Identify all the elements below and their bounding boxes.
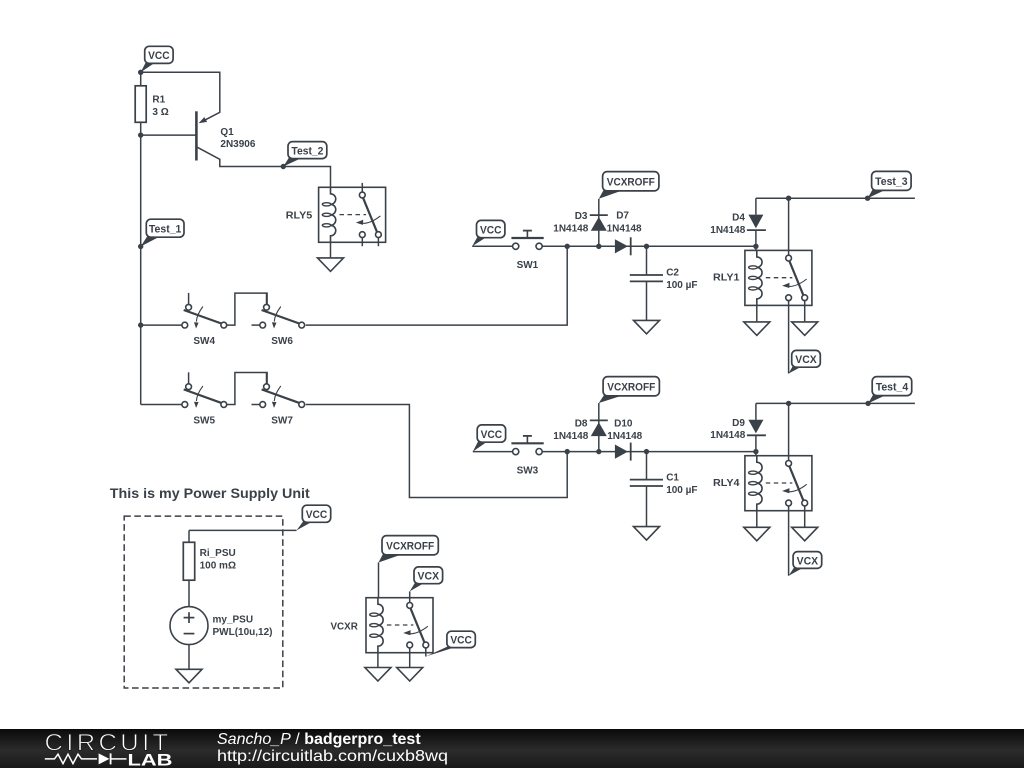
wire RLY1 switch pin [788,198,790,255]
svg-text:1N4148: 1N4148 [553,431,588,442]
svg-text:100 µF: 100 µF [666,485,697,496]
ground VCXR common [397,668,423,682]
svg-text:Q1: Q1 [220,127,234,138]
svg-text:VCXROFF: VCXROFF [386,541,434,553]
svg-text:VCC: VCC [450,635,472,647]
label SW6 [271,336,293,347]
ground RLY4 NO [792,527,818,541]
svg-text:1N4148: 1N4148 [710,225,745,236]
svg-text:2N3906: 2N3906 [220,139,255,150]
wire RLY4 NO pin [804,506,806,527]
logo squiggle diode [99,753,110,764]
wire VCC to SW1 [472,245,512,247]
net label VCC (PSU) [297,505,331,530]
diode D10 [615,443,631,461]
label my_PSU [213,615,273,638]
node VCC junction [138,70,143,75]
label SW5 [193,415,215,426]
switch SW7 [252,372,305,408]
svg-text:SW5: SW5 [193,415,215,426]
switch SW6 [252,293,305,329]
svg-text:Test_2: Test_2 [291,145,323,157]
relay RLY1 [745,250,812,305]
svg-text:VCXR: VCXR [331,622,359,633]
ground RLY4 coil [744,527,770,541]
svg-text:PWL(10u,12): PWL(10u,12) [213,627,273,638]
wire Test_3 net [756,197,915,199]
wire D9 to RLY4 coil [755,435,757,455]
wire SW6 to SW1 row [306,246,568,325]
wire Q1 collector to RLY5 [197,147,330,187]
wire SW4 to SW6 [227,293,267,325]
label D7 [607,211,642,235]
svg-text:http://circuitlab.com/cuxb8wq: http://circuitlab.com/cuxb8wq [217,748,448,765]
wire Q1 base [141,134,197,136]
wire Ri_PSU to my_PSU [188,580,190,606]
switch SW5 [182,372,227,408]
node R1 bottom junction [138,132,143,137]
label D3 [553,211,588,234]
diode D9 [747,420,766,436]
wire C1 top [646,452,648,480]
node SW6 wire junction [565,244,570,249]
svg-text:C1: C1 [666,473,679,484]
net label VCC (SW1) [472,220,505,246]
relay VCXR [366,598,433,653]
net label Test_4 [868,377,912,404]
svg-text:VCC: VCC [148,50,170,62]
svg-text:D7: D7 [616,211,629,222]
wire D4 to RLY1 coil [755,230,757,250]
label VCXR [331,622,359,633]
wire RLY1 NO pin [804,301,806,322]
svg-text:1N4148: 1N4148 [607,223,642,234]
relay RLY5 [319,187,386,242]
net label Test_3 [868,171,912,198]
wire SW3 to RLY4 [542,451,756,453]
diode D7 [615,237,631,255]
label R1 value [152,94,168,118]
svg-text:1N4148: 1N4148 [710,430,745,441]
svg-text:VCX: VCX [418,571,440,583]
label Q1 [220,127,255,150]
annotation PSU title [110,486,311,501]
annotation PSU dashed box [124,516,283,688]
label C2 [666,268,697,292]
ground VCXR coil [365,668,391,682]
net label VCC (SW3) [473,425,506,452]
label SW1 [517,260,539,271]
wire C1 bottom [646,486,648,527]
wire VCXROFF to VCXR coil [378,563,380,598]
svg-text:RLY4: RLY4 [713,478,740,489]
wire RLY4 common to VCX [788,506,790,576]
capacitor C1 [630,480,663,486]
wire rail to SW4 [141,324,182,326]
net label Test_2 [283,142,327,167]
wire RLY1 common to VCX [788,301,790,374]
svg-text:VCC: VCC [480,224,502,236]
resistor Ri_PSU [183,542,194,580]
wire D3 anode [598,215,600,246]
svg-text:This is my Power Supply Unit: This is my Power Supply Unit [110,486,311,501]
diode D8 [590,420,608,436]
label D8 [553,419,588,442]
wire SW1 to RLY1 [542,245,756,247]
wire RLY1 coil ground [756,305,758,322]
wire VCXR coil ground [377,653,379,668]
wire VCC to Ri_PSU [188,530,190,542]
svg-text:D8: D8 [575,419,588,430]
ground my_PSU [176,669,202,683]
node SW4 branch junction [138,322,143,327]
label C1 [666,473,697,497]
wire RLY4 coil ground [756,511,758,528]
net label VCX (VCXR) [410,567,443,592]
svg-text:VCXROFF: VCXROFF [607,177,655,189]
source my_PSU [170,607,208,645]
node Test_1 junction [138,244,143,249]
net label VCC (VCXR) [426,631,476,656]
node Test_3 junction [865,196,870,201]
label RLY1 [713,273,740,284]
svg-text:D10: D10 [614,419,633,430]
pushbutton SW1 [511,231,543,250]
logo squiggle resistor [45,754,97,763]
label D4 [710,213,745,236]
net label VCXROFF (D8) [599,377,660,403]
node D8 junction [596,449,601,454]
net label VCX (RLY4) [789,552,822,576]
svg-text:Test_1: Test_1 [149,224,182,236]
wire my_PSU to ground [188,645,190,670]
wire VCXR common pin [409,648,411,668]
transistor Q1 bar [195,111,198,160]
switch SW4 [182,293,227,329]
node D9 RLY4 junction [753,449,758,454]
node Test_4 junction [865,401,870,406]
svg-text:Sancho_P / badgerpro_test: Sancho_P / badgerpro_test [217,731,421,748]
label SW7 [271,415,293,426]
wire C2 top [646,246,648,275]
pushbutton SW3 [511,436,543,455]
svg-text:RLY5: RLY5 [286,211,313,222]
footer bar [0,729,1024,768]
wire RLY5 coil to ground [330,242,332,258]
node D3 junction [596,244,601,249]
svg-text:1N4148: 1N4148 [607,431,642,442]
wire PSU VCC [189,529,297,531]
net label VCXROFF (VCXR) [379,536,439,563]
wire C2 bottom [646,281,648,320]
label SW3 [517,465,539,476]
label D10 [607,419,642,442]
svg-text:SW4: SW4 [193,336,215,347]
svg-text:100 mΩ: 100 mΩ [200,561,236,572]
wire RLY5 top pin stub [361,183,363,192]
svg-text:SW6: SW6 [271,336,293,347]
wire D8 to VCXROFF [598,403,600,420]
wire RLY5 bottom pins [362,238,378,247]
wire VCC to SW3 [473,451,513,453]
svg-text:LAB: LAB [128,750,173,768]
svg-text:100 µF: 100 µF [666,280,697,291]
wire D9 cathode [755,403,757,420]
node Test_2 junction [281,164,286,169]
relay RLY4 [745,456,812,511]
node RLY4 switch junction [786,401,791,406]
svg-text:R1: R1 [152,94,165,105]
svg-text:SW7: SW7 [271,415,293,426]
svg-text:Test_4: Test_4 [876,381,909,393]
svg-text:VCC: VCC [306,509,328,521]
svg-text:Test_3: Test_3 [875,176,908,188]
wire VCXR NO to VCC [425,648,427,657]
ground RLY5 [318,258,344,272]
node SW7 wire junction [565,449,570,454]
svg-text:Ri_PSU: Ri_PSU [200,548,236,559]
capacitor C2 [630,275,663,281]
svg-text:VCC: VCC [481,429,503,441]
svg-text:D3: D3 [575,211,588,222]
wire RLY4 switch pin [788,403,790,460]
svg-text:VCXROFF: VCXROFF [607,382,655,394]
svg-text:C2: C2 [666,268,679,279]
net label VCC (top left) [141,46,173,72]
ground C2 [634,320,660,334]
svg-text:SW3: SW3 [517,465,539,476]
wire VCX to VCXR pin [409,591,411,602]
wire D8 anode [598,420,600,451]
ground C1 [634,527,660,541]
node C2 junction [644,244,649,249]
net label VCXROFF (D3) [599,172,659,199]
node D4 RLY1 junction [753,244,758,249]
wire D3 to VCXROFF [598,199,600,215]
ground RLY1 coil [744,322,770,336]
svg-text:my_PSU: my_PSU [213,615,254,626]
node C1 junction [644,449,649,454]
svg-text:D9: D9 [732,418,745,429]
emitter arrow Q1 [199,117,208,123]
svg-text:D4: D4 [732,213,745,224]
wire D4 cathode [755,198,757,215]
svg-text:VCX: VCX [797,555,819,567]
resistor R1 [135,86,146,123]
diode D3 [590,215,608,231]
svg-text:3 Ω: 3 Ω [152,107,168,118]
wire SW7 to SW3 row [306,405,568,498]
svg-text:SW1: SW1 [517,260,539,271]
svg-text:RLY1: RLY1 [713,273,740,284]
wire Test_4 net [756,402,915,404]
node RLY1 switch junction [786,196,791,201]
net label VCX (RLY1) [789,350,821,373]
net label Test_1 [141,219,184,246]
svg-text:VCX: VCX [795,354,817,366]
wire SW5 to SW7 [227,373,267,405]
diode D4 [747,215,766,231]
wire left rail [141,72,182,404]
wire VCC to Q1 emitter [141,72,220,121]
label D9 [710,418,745,441]
label RLY4 [713,478,740,489]
label Ri_PSU [200,548,236,572]
svg-text:1N4148: 1N4148 [553,223,588,234]
ground RLY1 NO [792,322,818,336]
label RLY5 [286,211,313,222]
label SW4 [193,336,215,347]
